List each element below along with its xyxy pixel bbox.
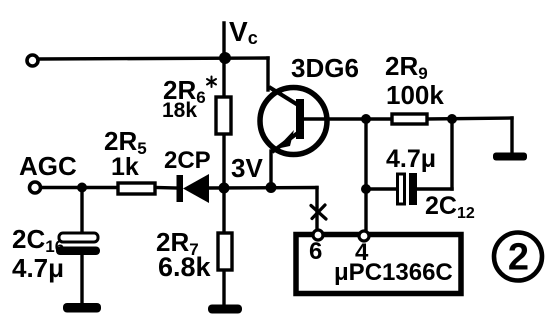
svg-text:6: 6 bbox=[309, 238, 322, 265]
svg-text:3V: 3V bbox=[231, 153, 263, 183]
svg-text:3DG6: 3DG6 bbox=[291, 53, 359, 83]
svg-text:6.8k: 6.8k bbox=[158, 252, 212, 282]
svg-text:AGC: AGC bbox=[19, 151, 77, 181]
svg-text:4.7μ: 4.7μ bbox=[386, 145, 436, 173]
svg-text:1k: 1k bbox=[111, 153, 139, 181]
svg-text:2: 2 bbox=[508, 237, 529, 279]
svg-text:18k: 18k bbox=[162, 99, 197, 122]
svg-text:100k: 100k bbox=[386, 80, 444, 110]
svg-text:4.7μ: 4.7μ bbox=[12, 253, 64, 283]
svg-text:2CP: 2CP bbox=[164, 147, 211, 174]
svg-text:μPC1366C: μPC1366C bbox=[334, 259, 453, 286]
